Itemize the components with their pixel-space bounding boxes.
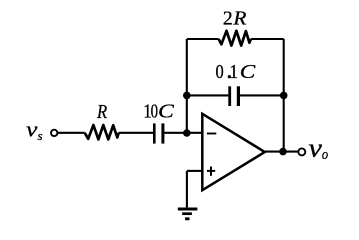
capacitor C1 10C	[153, 123, 156, 143]
wire to ground	[186, 171, 188, 208]
svg-text:R: R	[96, 101, 107, 123]
terminal circle vo	[298, 148, 305, 155]
resistor R	[85, 125, 119, 139]
node dot 0.1C right junction	[280, 92, 288, 100]
wire op-amp output	[264, 151, 298, 153]
svg-text:s: s	[38, 128, 43, 143]
wire left vertical node B up to top feedback	[186, 39, 188, 133]
node B dot (inverting input junction)	[183, 129, 191, 137]
capacitor C2 0.1C	[228, 86, 231, 106]
svg-text:R: R	[232, 8, 246, 30]
op-amp minus sign	[207, 133, 216, 135]
op-amp U1	[202, 114, 264, 190]
svg-text:0: 0	[151, 101, 158, 123]
wire vs terminal to R	[58, 132, 85, 134]
svg-text:0: 0	[216, 61, 224, 83]
ground	[178, 207, 198, 210]
op-amp plus sign	[207, 170, 215, 172]
wire node B to op-amp inverting input	[187, 132, 202, 134]
wire 10C to node B	[164, 132, 187, 134]
svg-text:1: 1	[229, 61, 238, 83]
wire middle feedback right segment	[240, 94, 284, 96]
wire R to 10C	[119, 132, 153, 134]
wire non-inverting input	[187, 170, 202, 172]
svg-text:C: C	[240, 61, 256, 83]
svg-text:o: o	[322, 147, 329, 163]
svg-text:v: v	[26, 117, 38, 142]
svg-text:2: 2	[223, 8, 233, 30]
wire right vertical down to output node	[283, 39, 285, 152]
wire middle feedback left segment	[187, 94, 229, 96]
svg-text:C: C	[158, 101, 175, 123]
resistor 2R	[219, 31, 251, 46]
wire top feedback left segment	[187, 38, 219, 40]
node dot output junction	[279, 148, 287, 156]
node A dot (0.1C left junction)	[183, 92, 191, 100]
terminal circle vs	[51, 130, 57, 136]
svg-text:v: v	[309, 133, 323, 162]
wire top feedback right segment	[251, 38, 284, 40]
